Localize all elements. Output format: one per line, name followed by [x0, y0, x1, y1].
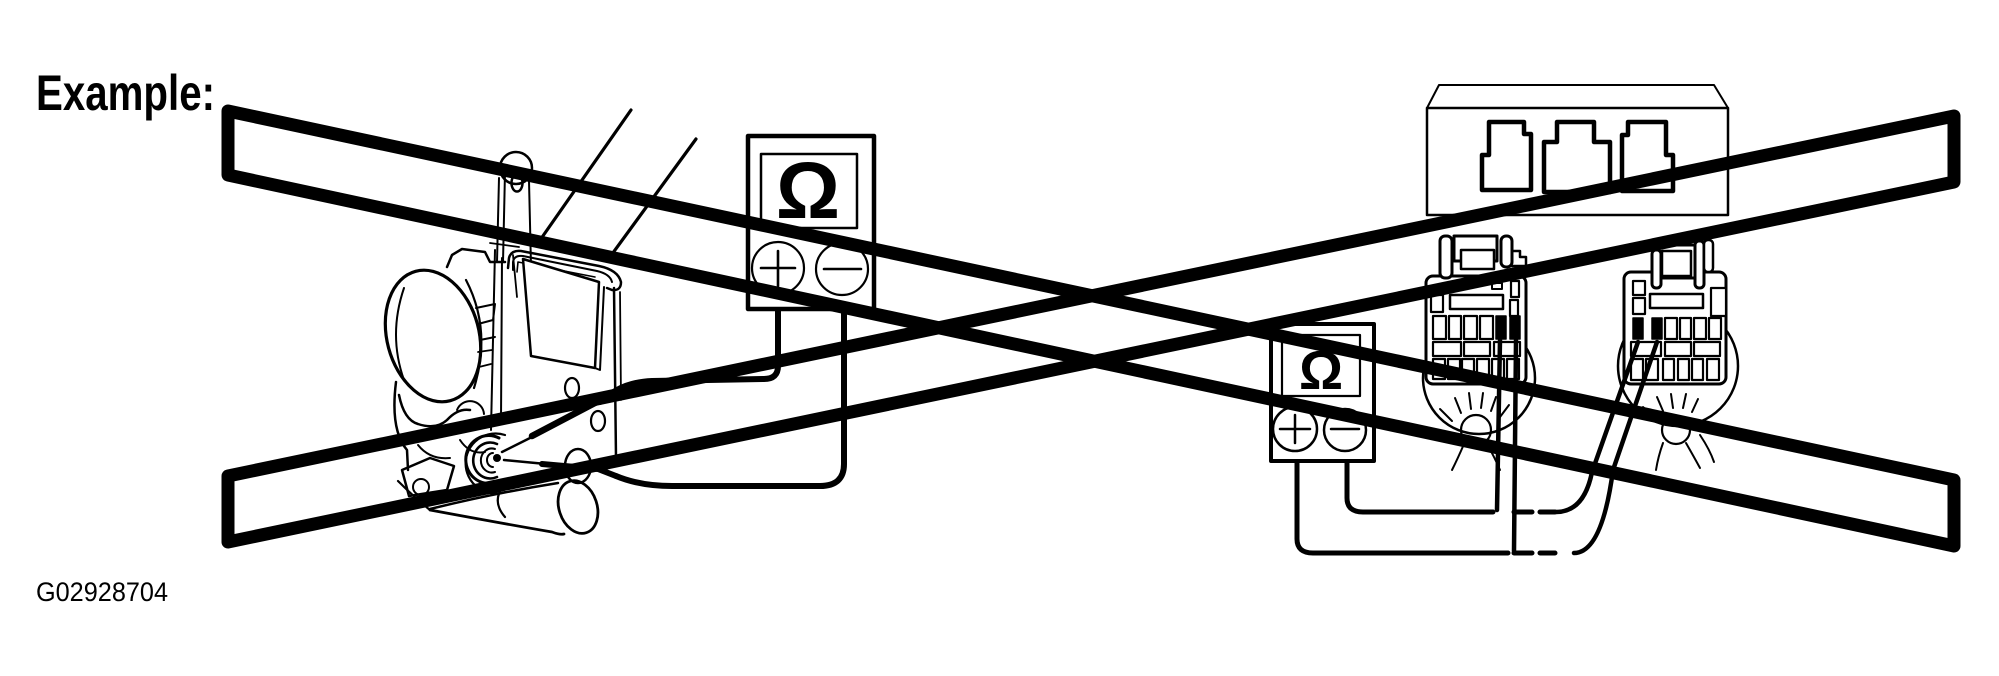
meter lead wire 1	[600, 309, 778, 402]
grid bottom row	[1631, 359, 1643, 380]
meter case	[1271, 324, 1374, 461]
minus terminal	[816, 243, 868, 295]
round bump under spool	[457, 401, 484, 414]
strap rounded top	[500, 152, 532, 184]
flap plate (white)	[523, 259, 599, 368]
wide slot rect	[1650, 294, 1703, 308]
latch post left	[1440, 236, 1452, 278]
pretensioner tube end cap	[552, 475, 605, 538]
latch bridge	[1454, 236, 1497, 261]
small box left bottom	[1633, 298, 1645, 314]
plate right edge double line	[620, 292, 621, 400]
column ticks	[478, 350, 492, 367]
svg-text:G02928704: G02928704	[36, 577, 168, 607]
meter lead wire upper	[1347, 459, 1493, 512]
probe A shaft	[532, 394, 612, 436]
meter case	[748, 136, 874, 309]
small box right top	[1511, 281, 1519, 297]
latch inner tab	[1461, 250, 1494, 269]
meter lead wire 2	[616, 309, 844, 486]
probed pin 1 (filled)	[1496, 316, 1506, 339]
connector housing box	[1427, 85, 1728, 215]
pin wire from connector B pin1	[1556, 342, 1638, 512]
clamp bracket lower left	[402, 458, 454, 496]
meter display window	[761, 154, 857, 228]
probe B shaft	[542, 464, 616, 476]
probed pin 2 (filled)	[1652, 318, 1662, 339]
probe pointer line 1	[538, 110, 631, 243]
clamp bottom edge to tube tip	[398, 481, 430, 510]
pin wire from connector A pin2	[1514, 340, 1516, 551]
grid top row	[1433, 316, 1446, 339]
small box left top	[1633, 281, 1645, 295]
pretensioner tube bottom edge	[430, 510, 564, 534]
svg-text:Example:: Example:	[36, 65, 215, 121]
meter lead wire lower	[1297, 459, 1508, 553]
housing slot 1	[1482, 122, 1531, 190]
tube inner left cap arc	[498, 485, 505, 517]
body top bumps	[447, 249, 505, 267]
lower housing outline	[394, 382, 408, 470]
pin wire from connector A pin1	[1497, 340, 1500, 510]
bundle rays	[1440, 393, 1509, 421]
latch post right	[1695, 241, 1704, 288]
small box right bottom	[1510, 300, 1518, 316]
latch step right	[1512, 251, 1526, 266]
latch post right	[1501, 236, 1512, 267]
wire balloon	[1423, 322, 1535, 434]
connector B body	[1624, 272, 1726, 384]
wire balloon	[1618, 306, 1738, 426]
probe pointer line 2	[607, 139, 696, 261]
wire bundle circle	[1461, 415, 1491, 445]
plate big hole	[565, 449, 591, 483]
spool inner crescent	[466, 280, 481, 388]
bundle rays	[1643, 394, 1698, 418]
retractor mounting strap left edges	[497, 178, 499, 262]
hub outer arc	[466, 434, 505, 494]
retractor mounting strap right edge	[529, 181, 531, 266]
diagonal edge left of flap	[513, 255, 517, 297]
svg-text:Ω: Ω	[776, 146, 840, 235]
strap slot hole	[512, 175, 523, 192]
latch post left	[1652, 250, 1661, 288]
grid middle row	[1433, 342, 1461, 356]
small box mid	[1492, 283, 1502, 289]
stepped zigzag on housing	[476, 304, 495, 340]
plus terminal	[1273, 407, 1317, 451]
probe B needle	[504, 460, 546, 464]
latch inner tab	[1662, 251, 1691, 276]
probe A needle	[502, 436, 534, 452]
plus terminal	[752, 242, 804, 294]
clamp circle	[413, 479, 429, 495]
bundle strands	[1452, 444, 1500, 470]
wide slot rect	[1450, 295, 1503, 309]
flap fold edge	[595, 287, 604, 370]
plate hole 1	[565, 378, 579, 398]
right tab	[1711, 288, 1726, 316]
spool inner left crescent	[396, 288, 404, 380]
hidden wire dashes lower	[1514, 551, 1555, 556]
grid middle row	[1631, 342, 1661, 356]
latch bridge	[1657, 245, 1695, 278]
hub core dot	[493, 454, 501, 462]
lower housing arcs	[418, 445, 450, 458]
pretensioner tube top edge	[430, 483, 558, 509]
grid bottom row	[1433, 359, 1445, 379]
wire bundle circle	[1662, 416, 1690, 444]
housing slot 3	[1622, 122, 1673, 191]
hub concentric rings	[466, 436, 499, 484]
spool cover ellipse	[371, 259, 495, 412]
X bar ascending	[228, 116, 1954, 542]
connector A body	[1426, 276, 1526, 384]
pin wire from connector B pin2	[1574, 342, 1657, 553]
X bar descending	[228, 111, 1954, 546]
probed pin 2 (filled)	[1510, 316, 1520, 339]
grid top row	[1665, 318, 1677, 339]
bundle strands	[1656, 435, 1714, 470]
meter display window	[1282, 335, 1360, 396]
plate hole 2	[591, 411, 605, 431]
housing slot 2	[1544, 122, 1610, 192]
retractor top bracket channel	[508, 251, 621, 290]
hidden wire dashes upper	[1514, 510, 1555, 515]
body top edge lines	[490, 243, 519, 247]
spool housing column lines	[501, 258, 502, 420]
latch post third	[1704, 240, 1713, 272]
retractor body plate right edge	[560, 288, 616, 468]
minus terminal	[1324, 409, 1366, 451]
spool bottom wavy outline	[399, 395, 470, 426]
probed pin 1 (filled)	[1633, 318, 1643, 339]
small box left	[1431, 295, 1443, 312]
